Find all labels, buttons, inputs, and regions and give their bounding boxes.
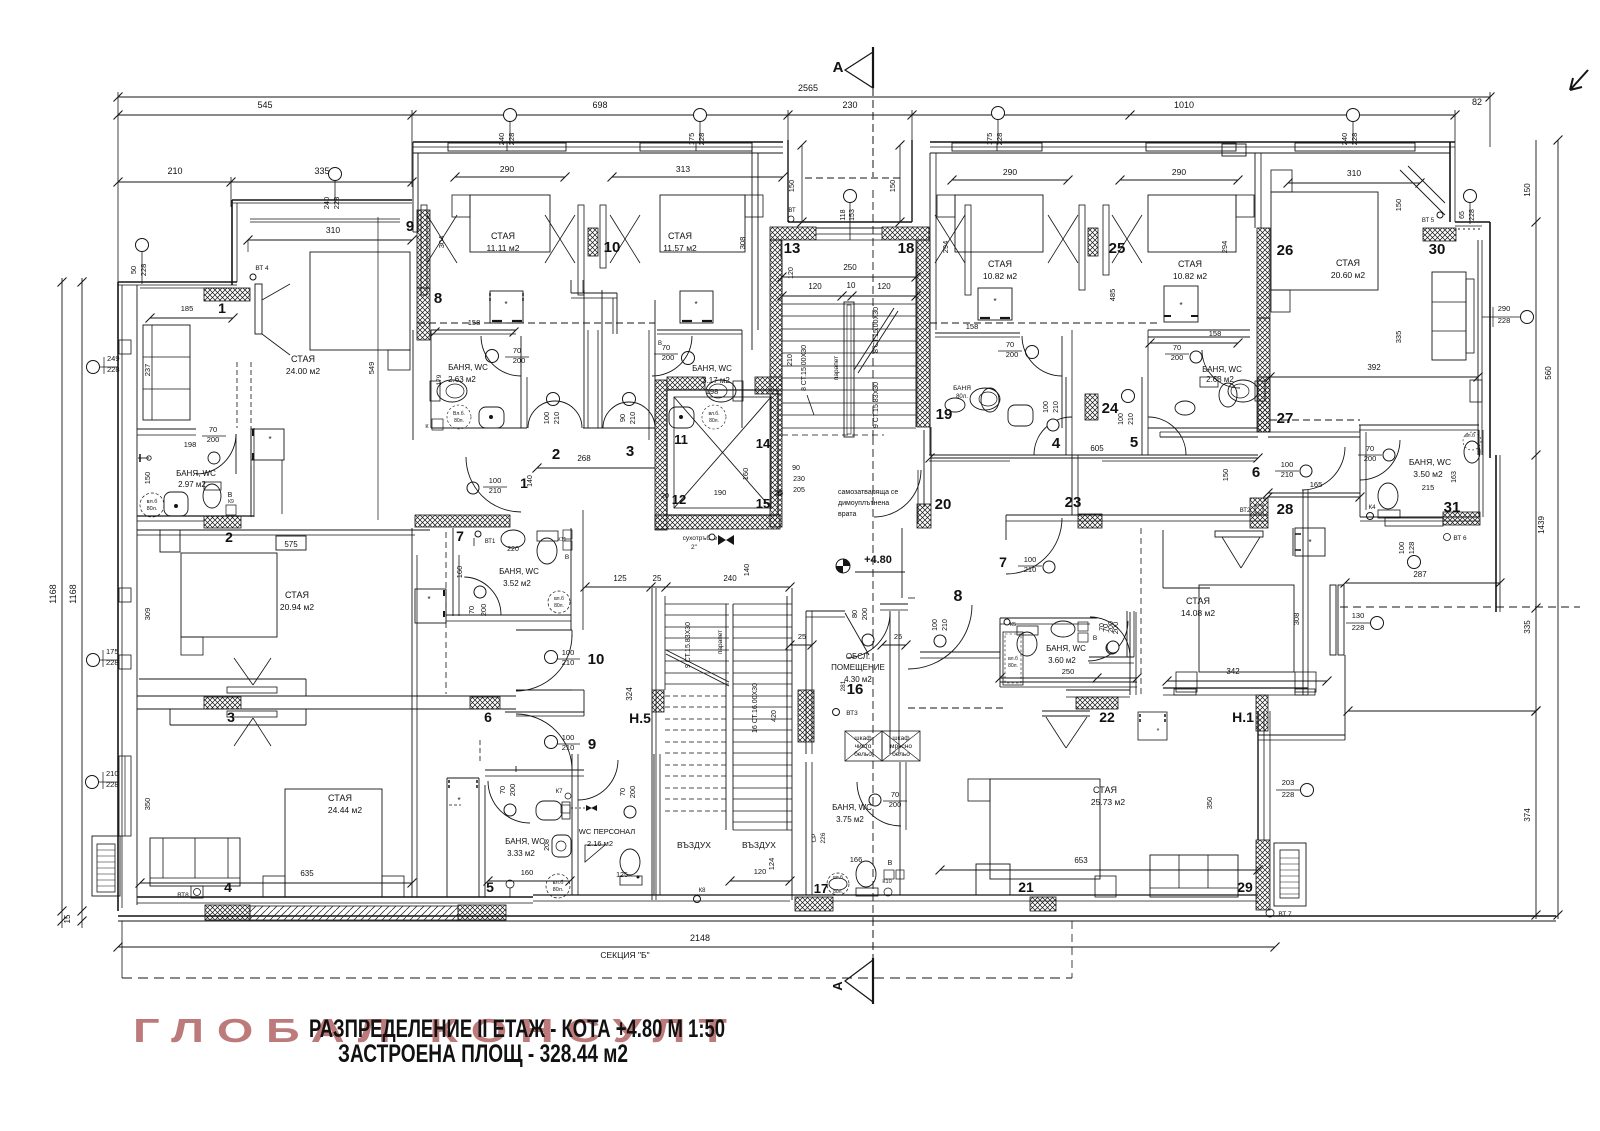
svg-text:290: 290 — [1172, 167, 1186, 177]
svg-text:281: 281 — [840, 680, 847, 691]
right outer wall mid — [1489, 222, 1491, 458]
svg-text:A: A — [833, 59, 844, 76]
svg-text:335: 335 — [314, 166, 329, 176]
stair right wall hatch — [917, 240, 930, 427]
svg-text:308: 308 — [738, 237, 747, 250]
bath8 washer — [490, 291, 523, 323]
svg-text:150: 150 — [143, 472, 152, 485]
svg-text:158: 158 — [966, 322, 979, 331]
svg-text:3.33 м2: 3.33 м2 — [507, 849, 535, 858]
svg-text:130: 130 — [1352, 611, 1365, 620]
svg-text:268: 268 — [577, 454, 591, 463]
svg-text:ВТ1: ВТ1 — [485, 539, 496, 545]
hatch 24 — [1085, 394, 1098, 420]
bath352 walls — [452, 528, 454, 616]
door2 labels — [547, 393, 560, 406]
svg-text:БАНЯ, WC: БАНЯ, WC — [832, 803, 872, 812]
svg-text:228: 228 — [106, 780, 119, 789]
svg-text:Вл.б.: Вл.б. — [453, 411, 465, 417]
svg-text:210: 210 — [1053, 401, 1060, 413]
svg-text:14.08 м2: 14.08 м2 — [1181, 608, 1215, 618]
svg-text:16 СТ.16.00X30: 16 СТ.16.00X30 — [752, 683, 759, 733]
svg-text:2: 2 — [225, 529, 233, 545]
washer niche — [1295, 528, 1325, 556]
svg-text:бельо: бельо — [854, 750, 872, 758]
svg-text:2148: 2148 — [690, 933, 710, 943]
stair riser 118/153 — [844, 190, 857, 203]
svg-text:70: 70 — [1366, 444, 1374, 453]
svg-text:350: 350 — [1205, 797, 1214, 810]
right outer wall lower — [1495, 455, 1497, 612]
svg-text:3: 3 — [227, 709, 235, 725]
bath4 door arc — [1022, 336, 1062, 376]
svg-text:РАЗПРЕДЕЛЕНИЕ II ЕТАЖ - КОТА +: РАЗПРЕДЕЛЕНИЕ II ЕТАЖ - КОТА +4.80 М 1:5… — [309, 1015, 725, 1043]
svg-text:485: 485 — [1108, 289, 1117, 302]
svg-text:210: 210 — [942, 619, 949, 631]
section marker A bottom — [872, 918, 874, 1003]
svg-text:220: 220 — [507, 546, 519, 553]
svg-text:ВЪЗДУХ: ВЪЗДУХ — [677, 840, 711, 850]
balcony door 1408 — [1330, 585, 1336, 655]
right rooms beds — [955, 195, 1043, 252]
svg-text:К9: К9 — [228, 499, 234, 505]
room2094 bed — [181, 553, 277, 637]
hatch 20 — [917, 504, 931, 528]
svg-text:ВТ 6: ВТ 6 — [1453, 535, 1467, 542]
left wing east wall — [411, 528, 413, 897]
bath297 sink — [164, 492, 188, 516]
stair top wall hatch R — [882, 227, 929, 240]
wc333 toilet — [536, 801, 562, 820]
svg-text:1: 1 — [218, 300, 226, 316]
svg-text:20.60 м2: 20.60 м2 — [1331, 270, 1365, 280]
svg-text:210: 210 — [1128, 413, 1135, 425]
svg-text:*: * — [993, 297, 996, 306]
svg-text:врата: врата — [838, 511, 856, 518]
svg-text:12: 12 — [672, 492, 686, 507]
svg-text:120: 120 — [754, 867, 767, 876]
svg-text:вл.б: вл.б — [833, 875, 843, 881]
svg-text:11.11 м2: 11.11 м2 — [487, 243, 520, 253]
obsl room walls — [806, 610, 845, 612]
svg-text:158: 158 — [1209, 329, 1222, 338]
svg-text:2.16 м2: 2.16 м2 — [587, 839, 613, 848]
svg-text:БАНЯ, WC: БАНЯ, WC — [499, 567, 539, 576]
svg-text:100: 100 — [542, 412, 551, 425]
svg-text:179: 179 — [436, 374, 443, 385]
bath24 fixtures — [1175, 401, 1195, 415]
wall y455 right — [929, 454, 1258, 456]
hatch wall 9/8 — [417, 210, 430, 288]
svg-text:ВТ 4: ВТ 4 — [255, 265, 269, 272]
svg-text:560: 560 — [1544, 366, 1553, 380]
corridor arcs 9-10 — [516, 635, 572, 691]
svg-text:+4.80: +4.80 — [864, 554, 892, 566]
svg-text:25: 25 — [798, 632, 806, 641]
svg-text:185: 185 — [181, 304, 194, 313]
window room 11.57 — [640, 143, 752, 151]
mid dashed line left block — [418, 322, 655, 324]
svg-text:80: 80 — [850, 610, 859, 618]
bottom hatch cross L — [205, 905, 250, 920]
bath317 toilet — [706, 380, 736, 402]
svg-text:250: 250 — [1062, 667, 1075, 676]
svg-text:20.94 м2: 20.94 м2 — [280, 602, 314, 612]
svg-text:2.97 м2: 2.97 м2 — [178, 480, 206, 489]
bath350 walls — [1359, 425, 1361, 517]
svg-text:24.00 м2: 24.00 м2 — [286, 366, 320, 376]
svg-text:230: 230 — [793, 476, 805, 483]
svg-text:вл.б.: вл.б. — [708, 411, 719, 417]
svg-text:H.1: H.1 — [1232, 709, 1254, 725]
svg-text:22: 22 — [1099, 709, 1115, 725]
svg-text:228: 228 — [106, 658, 119, 667]
svg-text:124: 124 — [767, 858, 776, 871]
left dim 1168 lines — [61, 278, 63, 911]
svg-text:СТАЯ: СТАЯ — [291, 354, 315, 364]
svg-text:287: 287 — [1413, 570, 1427, 579]
svg-text:самозатваряща се: самозатваряща се — [838, 489, 898, 496]
svg-text:25: 25 — [653, 574, 662, 583]
svg-text:17: 17 — [814, 881, 828, 896]
hatch 6L — [470, 697, 500, 709]
svg-text:БАНЯ, WC: БАНЯ, WC — [505, 837, 545, 846]
svg-text:203: 203 — [1282, 778, 1295, 787]
wcpers sink tri — [585, 845, 605, 862]
axis dashed lower — [872, 437, 874, 918]
bath297 tap — [138, 457, 149, 459]
svg-text:27: 27 — [1277, 410, 1294, 427]
wall left of room4 — [929, 153, 931, 330]
svg-text:335: 335 — [1394, 331, 1403, 344]
svg-text:24: 24 — [1102, 400, 1119, 417]
stair top window — [816, 227, 882, 229]
svg-text:304: 304 — [437, 236, 446, 249]
dash corridor 27 — [1270, 419, 1360, 421]
lower stair dashed treads L — [665, 695, 729, 697]
bath375 walls — [805, 754, 807, 762]
bath350 door arc — [1360, 440, 1400, 480]
svg-text:80л.: 80л. — [147, 506, 158, 512]
left wing window sill marks — [119, 340, 131, 354]
bath19 door arc — [1202, 350, 1240, 388]
hatch 23 — [1078, 514, 1102, 528]
lower stair boundary — [651, 588, 653, 900]
stair hall walls — [781, 258, 783, 437]
wcpers door arc — [578, 760, 618, 800]
svg-text:К5: К5 — [1010, 622, 1016, 628]
svg-text:125: 125 — [616, 872, 628, 879]
svg-text:14: 14 — [756, 436, 771, 451]
svg-text:200: 200 — [1111, 622, 1120, 635]
svg-text:120: 120 — [808, 282, 822, 291]
svg-text:80л.: 80л. — [709, 418, 719, 424]
riser 50/228 left wing — [136, 239, 149, 252]
balcony parapet H1 — [1258, 734, 1345, 736]
dim 290 room11 — [455, 176, 565, 178]
left AC unit — [92, 836, 120, 896]
bed room 11.11 — [470, 195, 550, 252]
stair top wall hatch L — [770, 227, 816, 240]
bath297 shower — [140, 493, 164, 517]
door3 labels — [623, 393, 636, 406]
svg-text:150: 150 — [1394, 199, 1403, 212]
top band room 20.60 — [1288, 141, 1455, 143]
svg-text:3.52 м2: 3.52 м2 — [503, 579, 531, 588]
svg-text:698: 698 — [592, 100, 607, 110]
right dim horizontal 287 — [1345, 582, 1500, 584]
wardrobe X between 10 — [578, 205, 584, 295]
svg-text:374: 374 — [1523, 808, 1532, 822]
bath352 shower circ — [548, 591, 570, 613]
svg-text:653: 653 — [1074, 856, 1088, 865]
svg-text:К11: К11 — [558, 537, 567, 543]
corridor dash right — [908, 707, 1003, 709]
door3 arc — [603, 402, 655, 428]
boxed 575 — [276, 536, 306, 550]
svg-text:10: 10 — [604, 239, 621, 256]
elevator bottom hatch — [655, 515, 780, 529]
svg-text:545: 545 — [257, 100, 272, 110]
wc333 shower — [546, 874, 570, 898]
svg-text:210: 210 — [787, 354, 794, 366]
svg-text:310: 310 — [1347, 168, 1361, 178]
svg-text:5: 5 — [1130, 434, 1138, 451]
bath317 washer — [680, 291, 713, 323]
svg-text:20: 20 — [935, 496, 952, 513]
bath360 right wall — [1126, 611, 1128, 657]
svg-text:240: 240 — [723, 574, 737, 583]
door6 arc — [1302, 447, 1345, 490]
right wing window band — [1257, 711, 1259, 840]
riser 175/228 right — [992, 107, 1005, 120]
svg-text:18: 18 — [898, 240, 915, 257]
door1 arc — [466, 457, 521, 512]
svg-text:200: 200 — [628, 786, 637, 799]
svg-text:1439: 1439 — [1537, 516, 1546, 534]
svg-text:9: 9 — [588, 736, 596, 753]
corner door 30 — [1400, 170, 1445, 215]
svg-text:21: 21 — [1018, 879, 1034, 895]
bath352 dashes — [445, 532, 447, 694]
svg-text:*: * — [1308, 538, 1311, 547]
floor lamp — [506, 880, 514, 888]
svg-text:шкаф: шкаф — [854, 735, 872, 742]
bath375 toilet — [856, 861, 876, 887]
svg-text:605: 605 — [1090, 444, 1104, 453]
svg-text:*: * — [427, 595, 430, 604]
svg-text:290: 290 — [1003, 167, 1017, 177]
svg-text:70: 70 — [1173, 343, 1181, 352]
dimension line 2565 top — [118, 96, 1490, 98]
left outer wall — [117, 282, 119, 911]
svg-text:153: 153 — [849, 209, 856, 221]
bottom wall center — [533, 894, 790, 896]
svg-text:БАНЯ: БАНЯ — [953, 385, 971, 392]
bath317 top wall — [657, 329, 742, 331]
hatch 16 — [798, 690, 814, 742]
dimension line 545/698/230/1010/82 — [118, 114, 1455, 116]
svg-text:70: 70 — [891, 790, 899, 799]
svg-text:575: 575 — [284, 540, 298, 549]
svg-text:БАНЯ, WC: БАНЯ, WC — [692, 364, 732, 373]
sofa right — [1432, 272, 1466, 360]
svg-text:10.82 м2: 10.82 м2 — [983, 271, 1017, 281]
svg-text:228: 228 — [1352, 623, 1365, 632]
svg-text:70: 70 — [662, 343, 670, 352]
svg-text:120: 120 — [788, 267, 795, 279]
room2573 sofa — [1150, 855, 1238, 897]
svg-text:ВЪЗДУХ: ВЪЗДУХ — [742, 840, 776, 850]
bath19 bottom wall — [1148, 427, 1258, 429]
left riser 175/228 — [87, 654, 100, 667]
room2573 bed — [990, 779, 1100, 879]
svg-text:7: 7 — [999, 554, 1007, 570]
svg-text:БАНЯ, WC: БАНЯ, WC — [176, 469, 216, 478]
svg-text:6: 6 — [1252, 464, 1260, 481]
bottom wall right wing — [935, 896, 1258, 898]
wall right wcpers — [653, 754, 655, 895]
svg-text:ВТ 5: ВТ 5 — [1422, 218, 1435, 224]
room1 dashed closet — [236, 362, 238, 428]
riser 240/228 left — [329, 168, 342, 181]
svg-text:ВТ: ВТ — [788, 208, 796, 214]
bath317 sink — [669, 407, 694, 428]
svg-text:205: 205 — [793, 487, 805, 494]
right riser 65/228 — [1464, 190, 1477, 203]
stair landing dashed — [782, 434, 884, 436]
bath297 small K9 — [226, 505, 236, 515]
svg-text:228: 228 — [139, 264, 148, 277]
window right room1 — [952, 143, 1042, 151]
dimension line 210/335 — [118, 181, 412, 183]
svg-text:23: 23 — [1065, 494, 1082, 511]
level mark +4.80 — [836, 559, 850, 573]
svg-text:228: 228 — [1469, 209, 1476, 221]
svg-text:100: 100 — [1281, 460, 1294, 469]
svg-text:158: 158 — [468, 318, 481, 327]
svg-text:80л.: 80л. — [553, 887, 564, 893]
elevator shaft — [667, 390, 778, 515]
bath360 boiler — [1078, 622, 1088, 631]
riser 240/228 right — [1347, 109, 1360, 122]
svg-text:100: 100 — [932, 619, 939, 631]
wardrobe mid left — [234, 658, 253, 685]
wc333 sink — [552, 835, 571, 857]
hatch 31 bottom — [1443, 512, 1480, 525]
north arrow top right — [1570, 70, 1588, 90]
bath8 toilet — [437, 380, 467, 402]
svg-text:К8: К8 — [699, 888, 706, 894]
svg-text:ВТ2: ВТ2 — [1240, 508, 1251, 514]
bath8 top wall — [431, 329, 516, 331]
svg-text:3.60 м2: 3.60 м2 — [1048, 656, 1076, 665]
stair left wall hatch — [770, 240, 782, 527]
svg-text:7: 7 — [456, 528, 464, 544]
svg-text:228: 228 — [1282, 790, 1295, 799]
svg-text:100: 100 — [1397, 542, 1406, 555]
svg-text:*: * — [1179, 301, 1182, 310]
svg-text:4: 4 — [224, 879, 232, 895]
svg-text:К7: К7 — [556, 789, 563, 795]
wall room9 left — [412, 142, 414, 232]
hatch 2 — [204, 516, 241, 528]
recess bottom wall — [788, 221, 912, 223]
bt6 — [1444, 534, 1451, 541]
lower stair treads L — [665, 603, 729, 605]
riser 175/228 room1157 — [694, 109, 707, 122]
right dim verticals — [1535, 140, 1537, 919]
top band right rooms — [930, 141, 1130, 143]
svg-text:20: 20 — [661, 493, 669, 500]
elevator top hatch — [667, 377, 705, 390]
hatch 10 — [588, 228, 598, 256]
wardrobe room 11.11 left — [421, 205, 427, 295]
room1408 bed — [1199, 585, 1294, 672]
svg-text:ВТ 7: ВТ 7 — [1278, 911, 1292, 918]
svg-text:25: 25 — [1109, 240, 1126, 257]
svg-text:200: 200 — [508, 784, 517, 797]
right dim 711 — [1348, 710, 1536, 712]
lower stair treads R — [733, 603, 792, 605]
door8 labels — [934, 635, 946, 647]
elevator left hatch — [655, 380, 667, 530]
svg-text:100: 100 — [1118, 413, 1125, 425]
small vent box top — [1222, 144, 1246, 156]
svg-text:СТАЯ: СТАЯ — [285, 590, 309, 600]
bottom hatch diag — [250, 906, 458, 920]
svg-text:*: * — [1157, 728, 1160, 735]
svg-text:10: 10 — [588, 651, 605, 668]
hatch below 17 — [795, 897, 833, 911]
svg-text:190: 190 — [714, 488, 727, 497]
hatch wall 1 — [204, 288, 250, 301]
door2 arc — [528, 401, 582, 428]
svg-text:8: 8 — [434, 290, 442, 307]
window room 11.11 — [448, 143, 566, 151]
svg-text:*: * — [268, 435, 271, 444]
right step wall y222 — [1455, 221, 1490, 223]
wall under baths left — [412, 330, 414, 440]
svg-text:309: 309 — [143, 608, 152, 621]
bath350 sink — [1464, 441, 1480, 463]
bath8 small fixtures — [432, 419, 443, 430]
hatch wall 26 — [1257, 228, 1270, 318]
left riser 249/228 — [87, 361, 100, 374]
svg-text:80л.: 80л. — [833, 889, 843, 895]
svg-text:8: 8 — [954, 588, 963, 605]
svg-text:210: 210 — [552, 412, 561, 425]
corridor walls v — [516, 629, 572, 631]
room1 bed — [310, 252, 410, 350]
svg-text:290: 290 — [1498, 304, 1511, 313]
dotted wall piece top right — [1458, 228, 1480, 230]
wall between wc — [571, 754, 573, 895]
walls mid right block — [929, 330, 931, 455]
svg-text:140: 140 — [527, 475, 534, 487]
dashed plot boundary — [122, 977, 1072, 979]
svg-text:БАНЯ, WC: БАНЯ, WC — [1409, 457, 1451, 467]
wc333 top wall — [485, 769, 584, 771]
svg-text:бельо: бельо — [892, 750, 910, 758]
door9 labels — [545, 736, 558, 749]
svg-text:80л.: 80л. — [956, 394, 968, 400]
svg-text:163: 163 — [1451, 471, 1458, 483]
svg-text:димоуплътнена: димоуплътнена — [838, 500, 889, 507]
niche 22 — [1162, 530, 1164, 588]
svg-text:228: 228 — [1498, 316, 1511, 325]
wall bath297 bottom — [137, 515, 254, 517]
